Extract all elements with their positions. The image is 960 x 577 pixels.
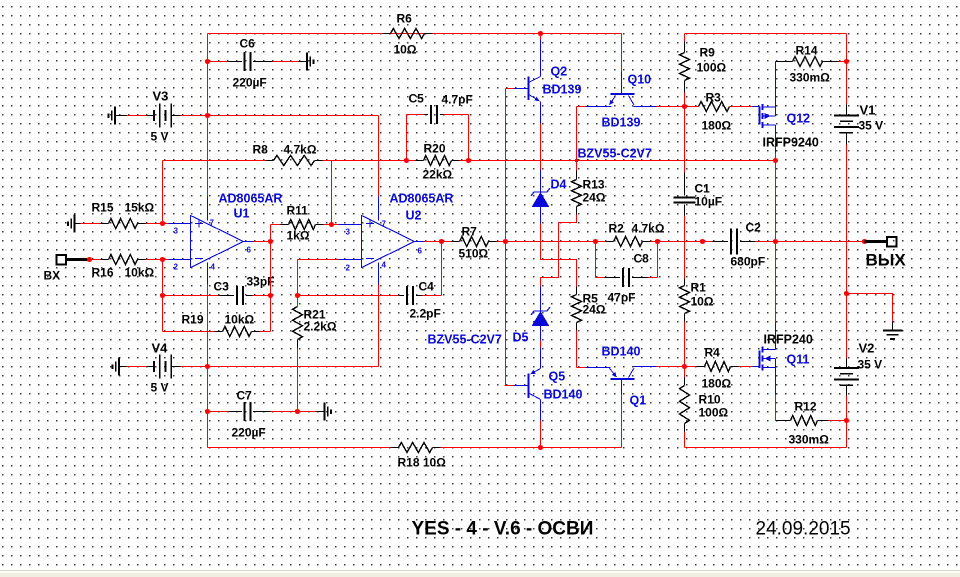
node R3 left <box>682 104 687 109</box>
transistor Q12 <box>760 104 776 128</box>
label C6 <box>240 37 256 51</box>
label AD8065AR U2 <box>390 192 454 206</box>
wire R5 to Q1 <box>577 331 586 368</box>
label R2 <box>609 222 625 236</box>
diode D4 <box>531 188 550 207</box>
wire D4 bottom lead <box>540 207 542 224</box>
wire U2 pin7 stub <box>378 197 380 221</box>
label R10 <box>699 393 721 407</box>
wire C6 right lead <box>253 61 299 63</box>
transistor Q10 <box>586 72 657 107</box>
svg-text:3: 3 <box>174 227 179 236</box>
svg-text:BD140: BD140 <box>602 345 641 359</box>
wire R18 row right <box>441 447 622 449</box>
pin 3 U2 <box>346 228 351 237</box>
wire D4 to R5 <box>541 224 577 287</box>
label U1 <box>234 207 250 221</box>
wire R11 left <box>271 225 281 242</box>
wire C3 right <box>246 295 271 297</box>
pin 7 U2 <box>382 220 387 229</box>
wire R3 left lead <box>685 106 699 108</box>
label 2.2pF C4 <box>410 307 441 321</box>
svg-text:V3: V3 <box>153 89 169 104</box>
svg-text:U1: U1 <box>234 207 250 221</box>
wire C7 left lead <box>208 411 243 413</box>
svg-text:220µF: 220µF <box>232 426 266 440</box>
wire V3 plus lead <box>181 115 208 117</box>
svg-text:YES - 4 - V.6 - ОСВИ: YES - 4 - V.6 - ОСВИ <box>412 519 594 540</box>
label V1 <box>860 103 876 118</box>
wire V4 gnd lead <box>127 366 147 368</box>
resistor R21 <box>293 296 303 349</box>
wire Q2 emitter down <box>540 124 542 170</box>
transistor Q11 <box>760 347 776 371</box>
svg-text:Q2: Q2 <box>551 65 568 79</box>
svg-text:5 V: 5 V <box>151 381 169 395</box>
pin 6 U1 <box>247 246 252 255</box>
resistor R2 <box>614 237 643 247</box>
wire R16 left <box>90 259 101 261</box>
svg-text:U2: U2 <box>406 209 422 223</box>
svg-text:4.7kΩ: 4.7kΩ <box>284 143 317 157</box>
svg-text:R9: R9 <box>700 46 716 60</box>
op-amp U2 <box>362 216 415 268</box>
label Q2 <box>551 65 568 79</box>
wire Q5 base <box>505 385 529 387</box>
label R12 <box>795 400 817 414</box>
pin 2 U1 <box>174 263 179 272</box>
wire top rail right <box>685 33 847 35</box>
label R7 <box>462 225 478 239</box>
transistor Q1 <box>586 367 657 395</box>
resistor R6 <box>383 29 433 39</box>
label D4 <box>551 178 567 192</box>
svg-text:15kΩ: 15kΩ <box>125 201 155 215</box>
battery V1 <box>834 105 859 145</box>
wire U1 pin2 stub <box>169 259 191 261</box>
ground C6 <box>299 53 314 71</box>
svg-text:BD140: BD140 <box>544 388 583 402</box>
svg-text:3: 3 <box>346 228 351 237</box>
wire U1 pin7 stub <box>207 197 209 221</box>
label R13 <box>583 178 605 192</box>
node R2 left <box>593 239 598 244</box>
wire R8 to R11 vertical <box>331 161 333 225</box>
node Q2 collector <box>538 31 543 36</box>
wire D5 bottom lead <box>540 326 542 341</box>
svg-text:R2: R2 <box>609 222 625 236</box>
wire U2 minus <box>298 259 341 261</box>
wire R21 bottom <box>297 349 299 412</box>
label 180 R3 <box>702 119 732 133</box>
ground out <box>883 322 903 340</box>
label 24 R13 <box>583 191 606 205</box>
svg-text:D4: D4 <box>551 178 567 192</box>
svg-text:5 V: 5 V <box>151 130 169 144</box>
svg-text:BZV55-C2V7: BZV55-C2V7 <box>578 147 652 161</box>
label 100 R10 <box>699 406 729 420</box>
svg-text:R19: R19 <box>182 313 204 327</box>
label C5 <box>409 92 425 106</box>
label BD140 Q1 <box>602 345 641 359</box>
wire Q11 source down <box>775 368 777 421</box>
ground V3 <box>108 107 126 125</box>
wire U1 pin4 drop <box>207 285 209 367</box>
wire left V+ column <box>207 34 209 197</box>
wire R7 left lead <box>442 241 460 243</box>
svg-text:ВЫХ: ВЫХ <box>866 251 907 270</box>
svg-text:Q5: Q5 <box>549 370 566 384</box>
title text <box>412 519 594 540</box>
wire gnd branch <box>847 294 893 322</box>
node U1 pin4 rail <box>205 364 210 369</box>
wire V4 rail <box>181 366 379 368</box>
node C7 left <box>205 409 210 414</box>
node U1 minus input <box>160 257 165 262</box>
wire C1 bottom <box>684 205 686 279</box>
capacitor C3 <box>237 286 243 305</box>
wire U1 pin3 stub <box>169 223 191 225</box>
label 35V V1 <box>859 119 884 133</box>
wire R16 right <box>146 259 169 261</box>
label R20 <box>424 142 446 156</box>
wire U2 out stub <box>414 241 425 243</box>
label R14 <box>796 44 818 58</box>
wire out run <box>776 241 865 243</box>
label Q5 <box>549 370 566 384</box>
resistor R9 <box>680 53 690 81</box>
node Q5 collector join <box>538 445 543 450</box>
svg-text:7: 7 <box>382 220 387 229</box>
svg-text:R13: R13 <box>583 178 605 192</box>
port BX <box>57 255 90 265</box>
svg-text:180Ω: 180Ω <box>702 119 732 133</box>
label BZV55 bottom <box>428 333 502 347</box>
wire Q2 base <box>506 88 529 90</box>
capacitor C6 <box>245 52 251 71</box>
svg-text:4: 4 <box>211 263 216 272</box>
wire C8 left drop <box>596 242 605 278</box>
transistor Q5 <box>529 348 541 421</box>
svg-text:C6: C6 <box>240 37 256 51</box>
wire C5 right drop <box>444 115 469 161</box>
svg-text:35 V: 35 V <box>858 358 883 372</box>
battery V3 <box>147 104 181 128</box>
wire Q12 gate stub <box>753 106 760 108</box>
resistor R5 <box>572 287 582 331</box>
node U2 out <box>439 239 444 244</box>
wire C7 gnd lead <box>298 411 317 413</box>
resistor R16 <box>101 255 146 265</box>
svg-text:BZV55-C2V7: BZV55-C2V7 <box>428 333 502 347</box>
node C6 junction <box>205 59 210 64</box>
resistor R12 <box>791 416 818 426</box>
wire bottom right rail <box>685 447 847 449</box>
svg-text:BX: BX <box>44 269 61 283</box>
node C3 left <box>160 293 165 298</box>
wire V2 bottom <box>846 396 848 421</box>
wire R1 bottom <box>684 322 686 367</box>
label 4.7pF C5 <box>442 93 473 107</box>
wire R19 right <box>260 331 271 333</box>
wire U1 out stub <box>244 241 254 243</box>
wire minus node drop <box>162 260 164 332</box>
wire C8 right drop <box>649 242 658 278</box>
wire U1 out <box>254 241 271 243</box>
label R5 <box>583 292 599 306</box>
label 4.7k R2 <box>632 222 665 236</box>
wire Q10 emitter drop <box>576 107 578 162</box>
date text <box>756 519 851 540</box>
svg-text:4.7kΩ: 4.7kΩ <box>632 222 665 236</box>
label R18 <box>398 456 447 470</box>
svg-text:330mΩ: 330mΩ <box>790 71 831 85</box>
label D5 <box>513 331 529 345</box>
node U1 plus input <box>160 221 165 226</box>
svg-text:R3: R3 <box>706 91 722 105</box>
svg-text:V1: V1 <box>860 103 876 118</box>
wire V1 top <box>846 34 848 105</box>
label Q10 <box>628 73 652 87</box>
svg-text:35 V: 35 V <box>859 119 884 133</box>
resistor R18 <box>391 443 441 453</box>
wire C7 to R18 <box>207 412 209 448</box>
svg-text:7: 7 <box>210 219 215 228</box>
svg-text:C7: C7 <box>237 389 253 403</box>
svg-text:100Ω: 100Ω <box>697 61 727 75</box>
wire R3 right lead <box>730 106 753 108</box>
svg-text:Q11: Q11 <box>787 353 810 367</box>
svg-text:24.09.2015: 24.09.2015 <box>756 519 851 540</box>
svg-text:2: 2 <box>346 264 351 273</box>
node R20 left <box>404 158 409 163</box>
label R6 <box>397 12 413 26</box>
label 100 R9 <box>697 61 727 75</box>
svg-text:BD139: BD139 <box>602 116 641 130</box>
wire U2 out <box>425 241 442 243</box>
svg-text:R4: R4 <box>705 346 721 360</box>
svg-text:2: 2 <box>174 263 179 272</box>
wire U2 pin4 stub <box>378 263 380 285</box>
wire R12 left lead <box>776 420 791 422</box>
wire C2 left lead <box>713 241 729 243</box>
resistor R11 <box>281 220 324 230</box>
wire U1 fb vertical <box>270 242 272 332</box>
node R2 right <box>655 239 660 244</box>
label 4.7k R8 <box>284 143 317 157</box>
label 5V V3 <box>151 130 169 144</box>
svg-text:10kΩ: 10kΩ <box>225 313 255 327</box>
wire V1 bottom <box>846 145 848 294</box>
wire Q10 base drop <box>621 34 623 72</box>
wire mid to C2 <box>658 241 713 243</box>
node R20 right <box>466 158 471 163</box>
wire Q5 collector down <box>540 421 542 448</box>
svg-text:V4: V4 <box>152 341 169 356</box>
ground V4 <box>112 358 126 376</box>
svg-text:C4: C4 <box>419 280 435 294</box>
svg-text:D5: D5 <box>513 331 529 345</box>
node R4 left <box>682 364 687 369</box>
svg-text:C8: C8 <box>634 252 650 266</box>
label BZV55 top <box>578 147 652 161</box>
svg-text:IRFP240: IRFP240 <box>764 333 813 347</box>
label IRFP240 <box>764 333 813 347</box>
label VYH <box>866 251 907 270</box>
pin 3 U1 <box>174 227 179 236</box>
label BD139 Q2 <box>543 83 582 97</box>
svg-text:6: 6 <box>247 246 252 255</box>
wire Q2 collector up <box>540 34 542 40</box>
resistor R19 <box>215 327 260 337</box>
svg-text:C1: C1 <box>695 182 711 196</box>
label R3 <box>706 91 722 105</box>
resistor R3 <box>699 102 730 112</box>
wire V3 gnd lead <box>127 115 147 117</box>
capacitor C4 <box>407 286 413 305</box>
svg-text:100Ω: 100Ω <box>699 406 729 420</box>
battery V4 <box>147 355 181 379</box>
label R1 <box>691 281 707 295</box>
label U2 <box>406 209 422 223</box>
wire Q11 gate stub <box>753 367 760 368</box>
svg-text:Q1: Q1 <box>630 394 647 408</box>
label 22k R20 <box>423 168 453 182</box>
svg-text:6: 6 <box>418 247 423 256</box>
label C8 <box>634 252 650 266</box>
svg-text:4: 4 <box>382 261 387 270</box>
label 180 R4 <box>702 377 732 391</box>
svg-text:R14: R14 <box>796 44 818 58</box>
label BD139 Q10 <box>602 116 641 130</box>
resistor R20 <box>416 156 460 166</box>
svg-text:IRFP9240: IRFP9240 <box>763 136 819 150</box>
label 15k R15 <box>125 201 155 215</box>
label V3 <box>153 89 169 104</box>
node mid <box>700 239 705 244</box>
wire R7 right lead <box>489 241 506 243</box>
wire C7 right lead <box>253 411 297 413</box>
svg-text:R11: R11 <box>287 204 309 218</box>
svg-text:R18 10Ω: R18 10Ω <box>398 456 447 470</box>
resistor R4 <box>705 362 731 372</box>
label V2 <box>859 341 875 356</box>
resistor R13 <box>572 162 582 215</box>
capacitor C1 <box>674 198 696 203</box>
svg-text:R8: R8 <box>253 143 269 157</box>
svg-text:10Ω: 10Ω <box>691 295 714 309</box>
capacitor C5 <box>425 105 444 124</box>
label R8 <box>253 143 269 157</box>
wire Q10 collector <box>657 106 684 108</box>
pin 4 U2 <box>382 261 387 270</box>
label 1k R11 <box>287 229 310 243</box>
svg-text:R16: R16 <box>92 266 114 280</box>
label 680pF C2 <box>731 255 766 269</box>
pin 7 U1 <box>210 219 215 228</box>
label 5V V4 <box>151 381 169 395</box>
svg-text:1kΩ: 1kΩ <box>287 229 310 243</box>
node R14 right <box>844 59 849 64</box>
node out port <box>862 239 867 244</box>
wire R15 right <box>146 223 171 225</box>
wire R2 right lead <box>643 241 658 243</box>
wire R13 to D5 <box>541 215 577 287</box>
svg-text:R1: R1 <box>691 281 707 295</box>
label 220uF C7 <box>232 426 266 440</box>
node R7 right <box>503 239 508 244</box>
svg-text:220µF: 220µF <box>233 76 267 90</box>
label 24 R5 <box>583 303 606 317</box>
label R9 <box>700 46 716 60</box>
svg-text:Q12: Q12 <box>787 112 811 126</box>
node C7 right <box>295 409 300 414</box>
node R12 right <box>844 418 849 423</box>
label 10k R16 <box>125 266 155 280</box>
wire Q1 base drop <box>621 395 623 448</box>
wire U1 pin4 to C7 <box>207 367 209 412</box>
wire R15 left <box>81 223 101 225</box>
wire R12 right lead <box>818 420 847 422</box>
svg-text:2.2pF: 2.2pF <box>410 307 441 321</box>
resistor R8 <box>266 156 323 166</box>
wire Q10 emitter <box>577 106 586 108</box>
label 10 R6 <box>394 43 417 57</box>
label R4 <box>705 346 721 360</box>
label C2 <box>746 221 762 235</box>
wire V2 to rail <box>846 421 848 448</box>
wire Q12 drain down <box>775 125 777 161</box>
svg-text:680pF: 680pF <box>731 255 766 269</box>
node Q12 drain rail <box>773 158 778 163</box>
label 10uF C1 <box>695 195 723 209</box>
label R15 <box>92 201 114 215</box>
svg-text:R12: R12 <box>795 400 817 414</box>
wire C5 left drop <box>407 115 425 161</box>
label BX <box>44 269 61 283</box>
svg-text:C3: C3 <box>214 280 230 294</box>
label 10 R1 <box>691 295 714 309</box>
label 33pF C3 <box>247 275 275 289</box>
wire Q1 collector <box>657 366 685 368</box>
svg-text:10Ω: 10Ω <box>394 43 417 57</box>
label 47pF C8 <box>608 291 636 305</box>
node BX <box>87 257 92 262</box>
label 220uF C6 <box>233 76 267 90</box>
svg-text:22kΩ: 22kΩ <box>423 168 453 182</box>
label BD140 Q5 <box>544 388 583 402</box>
wire feedback rail <box>163 160 776 162</box>
label 2.2k R21 <box>304 320 337 334</box>
wire V2 top <box>846 294 848 359</box>
node rail R13 <box>575 159 579 163</box>
node V3 junction <box>205 113 210 118</box>
wire R14 right lead <box>823 61 847 63</box>
wire C3 left <box>163 295 235 297</box>
wire U2 pin7 drop <box>378 116 380 197</box>
label Q12 <box>787 112 811 126</box>
wire R9 bottom lead <box>684 81 686 107</box>
wire D5 top lead <box>540 287 542 311</box>
resistor R7 <box>460 237 489 247</box>
svg-text:R15: R15 <box>92 201 114 215</box>
label R16 <box>92 266 114 280</box>
scrollbar strip <box>0 570 960 577</box>
svg-text:V2: V2 <box>859 341 875 356</box>
node U1 out <box>268 239 273 244</box>
svg-text:AD8065AR: AD8065AR <box>390 192 454 206</box>
wire Q11 drain up <box>775 242 777 350</box>
